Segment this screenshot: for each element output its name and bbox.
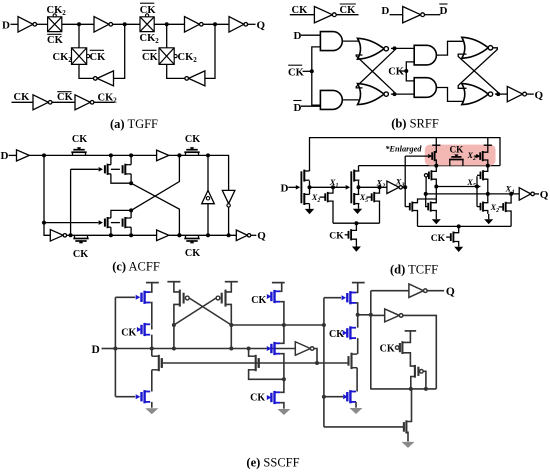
transmission gate TG2 (a): [140, 17, 154, 32]
wire X3 vertical (d): [404, 156, 406, 207]
inverter A7 clock (a): [33, 95, 48, 110]
inverter A1 (a): [18, 17, 33, 33]
svg-text:Q: Q: [446, 286, 455, 298]
wire P1 source up (d): [309, 170, 311, 171]
wire CK2 segment (a): [94, 101, 115, 103]
transistor M2 top-right (c): [124, 164, 126, 175]
pmos M16 keeper feedback (e): [414, 365, 416, 378]
clocked pass transistor CK top-right (c): [184, 151, 199, 153]
wire A5 input from node B (a): [114, 24, 125, 78]
wire M4 source to rail (c): [129, 226, 131, 228]
svg-text:CK: CK: [90, 52, 107, 63]
svg-text:(e) SSCFF: (e) SSCFF: [246, 456, 299, 470]
wire TG4 to feedback inverter A6 (a): [167, 64, 185, 78]
wire gate vertical x70 (c): [70, 169, 72, 235]
node dot inverter C2 out (c): [69, 233, 73, 237]
vdd tee cross right (e): [225, 281, 238, 283]
wire A1 to TG1 (a): [37, 23, 48, 25]
node cross left drain dot (e): [172, 323, 176, 327]
wire col4 out row (e): [358, 314, 371, 316]
inverter C4 bottom rail buffer (c): [157, 230, 169, 241]
wire P2 drain to node X2 (d): [358, 181, 360, 188]
svg-text:CK: CK: [251, 295, 266, 306]
wire CKbar segment (a): [52, 101, 75, 103]
pmos M5 cross left (e): [179, 290, 181, 307]
wire N2 source to ground (d): [358, 204, 360, 209]
svg-text:CK: CK: [431, 233, 446, 244]
wire M1 source to node (c): [111, 174, 131, 183]
wire M2 drain up (e): [151, 324, 153, 329]
transmission gate TG4 feedback (a): [159, 48, 174, 65]
inverter C3 top rail buffer (c): [157, 150, 169, 161]
svg-text:Q: Q: [257, 230, 266, 242]
box pmos left (d): [431, 152, 433, 160]
box pass nmos CK (d): [449, 159, 464, 161]
svg-text:*Enlarged: *Enlarged: [385, 144, 422, 153]
svg-text:Q: Q: [540, 189, 549, 201]
node gate row inverter dot (e): [315, 361, 319, 365]
wire M4 drain to node (c): [129, 217, 131, 219]
inverter C1 input buffer (c): [17, 150, 30, 161]
ground keeper (e): [407, 440, 409, 443]
svg-text:D: D: [2, 19, 10, 31]
nor gate NOR2 (b): [358, 84, 385, 105]
node cross right drain dot (e): [229, 323, 233, 327]
wire D to AND1 (b): [301, 34, 320, 36]
inverter D1 middle (d): [387, 181, 399, 193]
wire M11 source to vdd (e): [356, 283, 358, 293]
ground CK right (d): [458, 245, 460, 248]
svg-text:D: D: [281, 183, 289, 195]
wire inverter A input riser (e): [370, 291, 372, 390]
nmos tap2 X5 (d): [367, 196, 372, 198]
svg-text:(b) SRFF: (b) SRFF: [391, 117, 439, 131]
wire cross diagonal 2 (c): [131, 155, 179, 210]
node dot top rail x208 (c): [206, 153, 210, 157]
wire B3 to Q (b): [527, 93, 534, 95]
wire long vertical top to col4 gate (e): [324, 297, 341, 299]
wire X1 (d): [310, 186, 346, 188]
wire N1 source to ground (d): [309, 204, 311, 209]
wire D to stage1 gate (d): [288, 186, 296, 188]
wire inverter to X3 node (d): [402, 186, 405, 188]
vdd tee keeper (e): [405, 330, 417, 332]
wire bottom rail right (d): [418, 225, 512, 227]
box pmos right (d): [479, 152, 481, 160]
pmos M6 cross right (e): [224, 290, 226, 307]
wire cross NOR2 to NOR1 (b): [356, 55, 394, 92]
wire cross NOR4 to NOR3 (b): [458, 54, 498, 92]
node dot top rail x179 (c): [177, 153, 181, 157]
node X5 start dot (d): [434, 185, 438, 189]
and gate AND1 (b): [320, 32, 342, 51]
pink enlarged box (d): [425, 145, 496, 166]
transistor M1 top-left (c): [107, 164, 109, 175]
node col3 tap dot (e): [282, 323, 286, 327]
box pmos right vdd tee (d): [487, 138, 489, 146]
wire TG3 to feedback inverter (a): [79, 64, 94, 78]
wire left vertical from top rail (c): [44, 155, 50, 235]
wire M2 source to D row (e): [151, 335, 153, 349]
node X2 tap dot (d): [378, 185, 382, 189]
inverter C2 bottom-left (c): [50, 230, 63, 242]
wire NOR1 to AND3 (b): [391, 47, 414, 49]
inverter B2 (b): [403, 7, 421, 23]
nmos M13 gray column4 (e): [350, 353, 352, 369]
node long vertical top dot (e): [322, 323, 326, 327]
svg-text:(a) TGFF: (a) TGFF: [110, 117, 158, 131]
nmos N3b stage3 right (d): [427, 203, 429, 211]
wire M10 source to col3 (e): [249, 370, 284, 380]
svg-text:CK: CK: [340, 5, 357, 16]
wire gate to nmos M4 (e): [115, 396, 135, 398]
svg-text:CK: CK: [72, 134, 87, 145]
wire M9 drain up (e): [280, 379, 284, 392]
node box right drain dot (d): [486, 164, 490, 168]
svg-text:CK: CK: [185, 248, 200, 259]
wire long vertical (e): [323, 298, 325, 427]
wire M12 drain up (e): [357, 315, 359, 328]
box pmos right gate lead (d): [474, 155, 476, 157]
wire X4 row (d): [426, 193, 520, 195]
wire gate link M4 (c): [111, 222, 120, 224]
pmos P2 stage2 (d): [353, 170, 355, 182]
keeper down triangle (c): [222, 190, 235, 203]
pass nmos M10 middle (e): [255, 355, 257, 371]
wire cross NOR1 to NOR2 (b): [356, 50, 394, 88]
stage2 gate arrow (d): [346, 185, 350, 190]
nmos M17 output pulldown (e): [403, 422, 405, 432]
inverter B3 output (b): [507, 86, 522, 101]
node CKbar junction dot (b): [310, 69, 314, 73]
wire X2 (d): [359, 186, 388, 188]
node X1 tap dot (d): [331, 185, 335, 189]
wire M8 source down (e): [280, 354, 284, 380]
wire M3 drain to node (c): [111, 210, 131, 218]
wire node C down (a): [166, 24, 168, 48]
clocked pass transistor CK top (c): [71, 151, 86, 153]
nmos N1 stage1 (d): [303, 193, 305, 205]
inverter E1 middle (e): [295, 342, 310, 356]
svg-text:D: D: [440, 5, 448, 17]
pmos P3 stage3 (d): [424, 174, 427, 177]
wire cross diagonal 1 (c): [131, 183, 179, 235]
wire to Q (c): [251, 234, 256, 236]
wire M3 source to rail (c): [110, 227, 112, 235]
stage4 gate stubs (d): [477, 174, 481, 176]
wire M17 gate row (e): [324, 426, 404, 428]
svg-text:CK: CK: [388, 67, 405, 78]
svg-text:D: D: [1, 150, 9, 162]
node dot top rail x131 (c): [129, 153, 133, 157]
gate stub and arrow CK top-right (c): [191, 147, 193, 150]
node dot top rail x111 (c): [109, 153, 113, 157]
transmission gate TG1 (a): [48, 17, 62, 32]
node D2 dot (a): [213, 22, 217, 26]
wire AND4 to NOR4 (b): [436, 88, 466, 102]
wire NOR2 to AND4 (b): [391, 93, 414, 95]
vdd tee column4 (e): [352, 282, 365, 284]
transistor M4 bottom-right (c): [124, 217, 126, 228]
wire AND1 to NOR1 (b): [342, 40, 362, 42]
wire to inverter B (e): [371, 314, 385, 316]
node box left drain dot (d): [434, 164, 438, 168]
node X1 dot (d): [308, 185, 312, 189]
wire B2 to Dbar (b): [425, 14, 441, 16]
ground CK left (d): [355, 245, 357, 248]
wire TG2 to inverter A3 (a): [154, 23, 184, 25]
nor gate NOR3 (b): [462, 37, 489, 58]
wire B1 to CKbar (b): [336, 14, 358, 16]
gate line stage1 (d): [300, 171, 302, 203]
node bottom rail left dot (d): [354, 221, 358, 225]
box pass gate arrow (d): [455, 155, 457, 157]
nmos M14 blue column4 (e): [343, 394, 348, 399]
wire CK to inverter B1 (b): [290, 14, 315, 16]
svg-text:D: D: [381, 5, 389, 17]
node long vertical gate dot (e): [322, 395, 326, 399]
inverter C5 output (c): [236, 230, 247, 241]
nmos M3 gray column1 (e): [158, 355, 160, 371]
wire CKbar to junction (b): [303, 70, 312, 72]
node A dot (a): [77, 22, 81, 26]
wire inverter C2 out (c): [67, 234, 76, 236]
inverter D2 output (d): [519, 188, 531, 201]
nmos N2 stage2 (d): [353, 193, 355, 205]
svg-text:(d) TCFF: (d) TCFF: [390, 263, 438, 277]
ground column1 (e): [151, 407, 153, 410]
svg-text:CK: CK: [73, 249, 88, 260]
nmos M12 blue CK column4 (e): [343, 330, 348, 335]
wire M3 drain up (e): [152, 355, 153, 357]
svg-text:CK: CK: [14, 92, 31, 103]
wire D to inverter (a): [11, 23, 19, 25]
ground stage1 (d): [305, 209, 314, 214]
node X5 gate tap dot (d): [475, 185, 479, 189]
node X4 left dot (d): [424, 192, 428, 196]
wire X3 to box pmos gate (d): [405, 155, 428, 157]
wire cross node row (e): [231, 324, 324, 326]
nmos CK left (d): [345, 234, 349, 236]
inverter A5 feedback (a): [97, 71, 113, 86]
svg-text:CK: CK: [57, 92, 74, 103]
wire M6 drain hook to node (e): [226, 304, 232, 348]
wire P2 source to mid rail (d): [358, 166, 360, 171]
wire top net (d): [310, 138, 501, 171]
wire M5 source hook (e): [174, 282, 180, 292]
ground stage4 (d): [488, 214, 490, 219]
pmos P1 stage1 (d): [303, 170, 305, 182]
wire CK to inverter A7 (a): [12, 101, 34, 103]
wire M7 drain down (e): [280, 302, 284, 325]
pmos P4 stage4 (d): [480, 172, 482, 180]
box pmos left vdd tee (d): [435, 138, 437, 146]
nor gate NOR4 (b): [462, 84, 489, 105]
pmos M11 blue column4 (e): [349, 291, 351, 304]
node dot bottom rail x131 (c): [129, 233, 133, 237]
node M2 source dot (e): [150, 347, 154, 351]
wire top rail right (c): [169, 155, 229, 235]
wire gate of bottom pair (c): [44, 222, 98, 224]
wire node A down (a): [78, 24, 80, 48]
node dot gate tap left (c): [42, 221, 46, 225]
wire E2 to Q (e): [427, 290, 444, 292]
wire M3 source down (e): [152, 369, 153, 371]
wire M12 source down (e): [357, 338, 359, 354]
wire mid rail (d): [359, 165, 501, 167]
wire CK to junction (b): [400, 70, 406, 72]
keeper tristate up triangle (c): [202, 190, 215, 203]
nor gate NOR1 (b): [358, 38, 385, 59]
nmos N3a stage3 left (d): [409, 203, 411, 211]
vdd tee column1 (e): [146, 282, 159, 284]
node X2 dot (d): [357, 185, 361, 189]
node dot bottom rail x208 (c): [206, 233, 210, 237]
wire M1 drain to rail (c): [110, 155, 112, 164]
inverter A4 (a): [229, 17, 244, 33]
wire TG1 to inverter A2 (a): [62, 23, 94, 25]
gate line stage4 (d): [476, 176, 478, 206]
wire M1 drain down (e): [150, 303, 152, 325]
wire M10 gate bar (e): [258, 358, 260, 368]
node bottom rail right dot (d): [457, 224, 461, 228]
wire cross diagonal right (e): [174, 298, 216, 325]
gate stub and arrow CK bottom-left (c): [80, 241, 82, 244]
wire D gate vertical (e): [114, 297, 116, 396]
node B dot (a): [123, 22, 127, 26]
and gate AND2 (b): [320, 90, 342, 109]
wire junction to AND1 and AND2 (b): [312, 47, 321, 105]
ground stage2 (d): [353, 209, 362, 214]
node Drow cross right dot (e): [229, 347, 233, 351]
wire M11 drain down (e): [356, 303, 358, 315]
wire top rail left (c): [29, 154, 156, 156]
node dot top pair common (c): [129, 181, 133, 185]
vdd tee column3 (e): [272, 282, 285, 284]
svg-text:CK: CK: [329, 329, 344, 340]
and gate AND4 (b): [414, 78, 436, 98]
ground column3 (e): [283, 408, 285, 411]
wire bottom rail (c): [76, 234, 236, 236]
wire M4 source to ground (e): [151, 402, 153, 408]
wire AND3 to NOR3 (b): [436, 41, 466, 55]
svg-text:CK: CK: [288, 68, 305, 79]
wire X5 row (d): [436, 186, 480, 188]
wire to inverter A (e): [371, 290, 409, 292]
svg-text:CK: CK: [121, 327, 136, 338]
svg-text:D: D: [294, 102, 302, 114]
svg-text:CK: CK: [140, 5, 157, 16]
wire M2 drain to rail (c): [129, 164, 131, 166]
gate line stage2 (d): [350, 171, 352, 203]
node C dot (a): [165, 22, 169, 26]
wire M14 gate from vertical (e): [324, 396, 343, 398]
pmos M1 blue column1 (e): [143, 291, 145, 304]
wire X3 to nmos gate stage3 left (d): [405, 206, 410, 208]
inverter E3 keeper (e): [385, 309, 400, 322]
wire P1 drain to node X1 (d): [309, 181, 311, 188]
node col3 mid dot (e): [282, 377, 286, 381]
wire NOR4 to inverter B3 (b): [495, 93, 507, 95]
node NOR4 output dot (b): [496, 92, 500, 96]
inverter B1 (b): [314, 7, 332, 23]
gate stub and arrow CK bottom-right (c): [191, 241, 193, 244]
node cross left Drow dot (e): [172, 347, 176, 351]
svg-text:D: D: [294, 30, 302, 42]
wire to Q (d): [534, 193, 539, 195]
transistor M3 bottom-left (c): [107, 217, 109, 228]
wire A3 to inverter A4 (a): [203, 23, 229, 25]
wire D to vertical (e): [102, 348, 116, 350]
node dot bottom rail x179 (c): [177, 233, 181, 237]
wire gate link M2 (c): [111, 168, 120, 170]
svg-text:CK: CK: [47, 35, 64, 46]
wire P3 gate to X4 (d): [425, 177, 427, 194]
inverter A2 (a): [94, 17, 109, 33]
wire gate to pmos M1 (e): [115, 296, 135, 298]
wire M7 source to vdd (e): [280, 283, 282, 292]
wire bottom rail left (d): [333, 222, 380, 224]
wire D to inverter C1 (c): [9, 154, 17, 156]
nmos tap4 X2 (d): [499, 206, 503, 208]
node CK junction dot (b): [404, 69, 408, 73]
wire Dbar to AND2 (b): [301, 105, 320, 107]
wire AND2 to NOR2 (b): [342, 99, 362, 101]
wire D to inverter B2 (b): [390, 14, 403, 16]
transmission gate TG3 feedback (a): [72, 48, 87, 65]
wire A4 to Q (a): [248, 23, 256, 25]
wire M8 drain up (e): [280, 325, 284, 343]
svg-text:CK: CK: [450, 144, 465, 154]
wire M5 drain hook to node (e): [174, 304, 180, 348]
ground column4 (e): [355, 407, 357, 410]
node dot bottom pair common (c): [129, 208, 133, 212]
wire M13 drain up (e): [356, 353, 358, 355]
inverter E2 to Q (e): [409, 284, 424, 298]
node dot X bottom (c): [177, 233, 181, 237]
node keeper row dot1 (e): [409, 387, 413, 391]
svg-text:CK: CK: [329, 231, 344, 242]
nmos M2 blue CK column1 (e): [137, 327, 142, 332]
inverter A8 clock (a): [75, 95, 90, 110]
nmos CK right (d): [446, 236, 451, 238]
gate stub and arrow CK top (c): [78, 147, 80, 150]
svg-text:Q: Q: [257, 19, 266, 31]
nmos N4 stage4 (d): [480, 203, 482, 211]
wire CK junction to AND3 AND4 (b): [406, 62, 414, 81]
inverter A3 (a): [185, 17, 200, 33]
wire keeper vertical x208 (c): [207, 155, 209, 235]
wire E1 out down to gate row (e): [314, 349, 317, 364]
svg-text:CK: CK: [250, 393, 265, 404]
wire M14 source to ground (e): [355, 402, 357, 408]
nmos M9 blue CK column3 (e): [267, 395, 272, 400]
wire A2 to TG2 (a): [113, 23, 140, 25]
wire cross diagonal left (e): [189, 298, 231, 325]
clocked pass transistor CK bottom-right (c): [184, 238, 199, 240]
wire M3 gate bar (e): [161, 358, 163, 368]
wire gate of top pair (c): [71, 168, 99, 170]
node NOR1 output dot (b): [393, 46, 397, 50]
wire N2 drain to node X2 (d): [358, 187, 360, 194]
ground stage3 (d): [435, 214, 437, 219]
svg-text:D: D: [92, 344, 100, 356]
node col4 out dot (e): [356, 313, 360, 317]
wire M9 source to ground (e): [280, 403, 284, 409]
node X4 tap dot (d): [509, 192, 513, 196]
nmos M4 blue column1 (e): [143, 390, 145, 403]
node dot bottom rail x111 (c): [109, 233, 113, 237]
